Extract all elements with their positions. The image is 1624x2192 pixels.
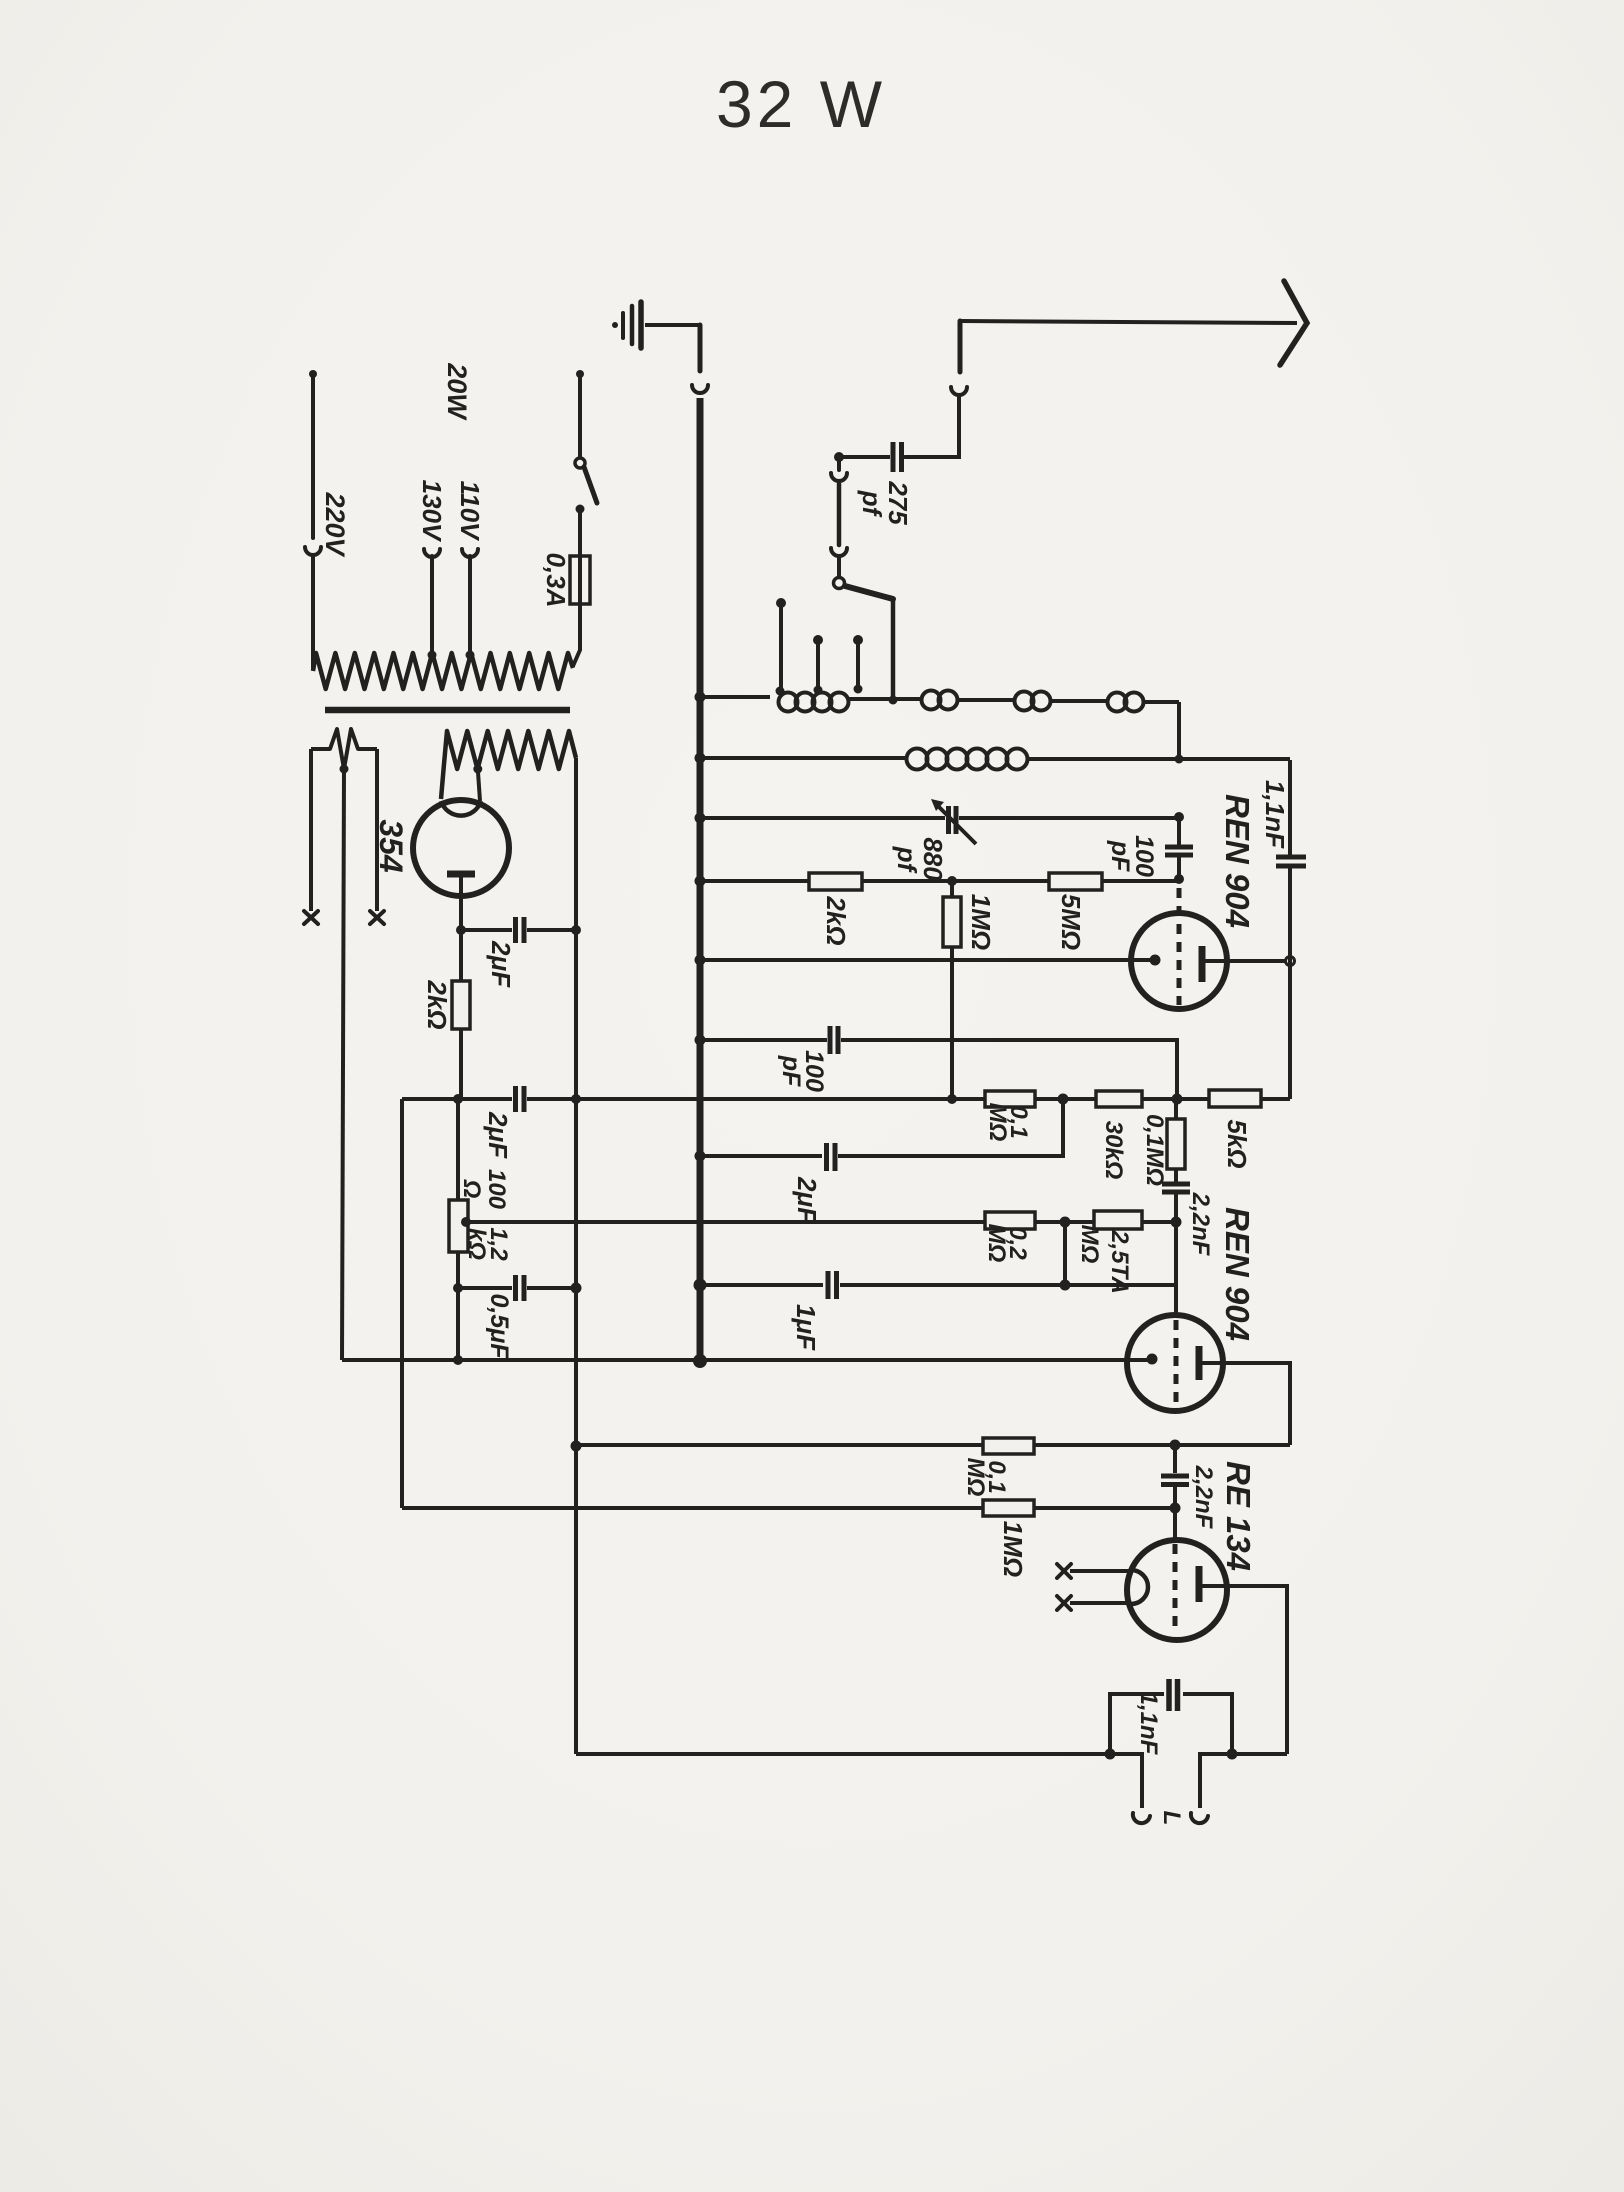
- wire row to 2uF: [461, 928, 512, 932]
- node coil junction: [1175, 755, 1184, 764]
- capacitor 1uF: [828, 1271, 837, 1299]
- tuned coil L2: [700, 749, 1290, 770]
- node grid RE134: [1170, 1503, 1181, 1514]
- svg-text:1,1nF: 1,1nF: [1135, 1692, 1162, 1756]
- node bus h: [694, 1279, 707, 1292]
- HT secondary winding: [441, 731, 576, 799]
- node 1M bottom: [947, 1094, 957, 1104]
- resistor 0,1M anode II: [983, 1438, 1034, 1454]
- tap stub 2: [813, 635, 823, 645]
- terminal speaker b: [1191, 1813, 1208, 1823]
- tube REN904 II: [1127, 1315, 1223, 1411]
- capacitor 2uF coupling: [516, 1086, 525, 1112]
- svg-text:1,2kΩ: 1,2kΩ: [463, 1227, 512, 1261]
- svg-text:2μF: 2μF: [483, 1111, 513, 1159]
- wire filament right to x-terminal: [375, 749, 379, 911]
- svg-text:1MΩ: 1MΩ: [966, 894, 996, 950]
- svg-text:0,1MΩ: 0,1MΩ: [1141, 1114, 1168, 1186]
- wire output row left: [576, 1754, 1142, 1808]
- node filament centre tap: [340, 765, 349, 774]
- tube REN904 I: [1131, 888, 1227, 1009]
- wire 2uF det row right: [838, 1099, 1063, 1156]
- tube RE134: [1127, 1508, 1227, 1640]
- node bus g: [695, 1151, 706, 1162]
- wire cathode row REN904 I: [700, 958, 1154, 962]
- svg-text:1MΩ: 1MΩ: [998, 1521, 1028, 1577]
- switch wave selector: [834, 578, 845, 589]
- node output b: [1227, 1749, 1238, 1760]
- tap stub 3: [853, 635, 863, 645]
- svg-text:REN 904: REN 904: [1219, 1207, 1256, 1341]
- capacitor 0,5uF: [516, 1275, 525, 1301]
- potentiometer 100R 1,2k: [456, 1099, 460, 1360]
- antenna feeder: [960, 321, 1297, 323]
- node HT rail d: [571, 1441, 582, 1452]
- wire 100pF row right: [841, 1040, 1177, 1099]
- resistor 1M grid leak RE134: [983, 1500, 1034, 1516]
- node bias a: [1060, 1217, 1071, 1228]
- wire output row right: [1200, 1754, 1287, 1808]
- wire grid row left: [402, 1097, 512, 1101]
- node pot bottom: [453, 1283, 463, 1293]
- wire RE134 filament b: [1070, 1601, 1131, 1605]
- wire 2uF to HT line: [527, 928, 576, 932]
- node bias link bottom: [1060, 1280, 1071, 1291]
- node 1M top: [947, 876, 957, 886]
- wire fuse to transformer: [573, 604, 580, 666]
- svg-text:1,1nF: 1,1nF: [1260, 780, 1290, 849]
- wire anode RE134: [1202, 1586, 1287, 1754]
- wire 275pf to tap node: [839, 455, 890, 459]
- switch S1: [576, 370, 584, 378]
- capacitor 2,2nF grid II: [1162, 1184, 1190, 1192]
- svg-text:0,1MΩ: 0,1MΩ: [984, 1103, 1032, 1142]
- wire 1uF row left: [700, 1283, 823, 1287]
- wire tuning row right: [959, 816, 1179, 820]
- svg-text:100pF: 100pF: [1106, 835, 1158, 877]
- wire 2,2nF to bias node: [1174, 1194, 1178, 1222]
- node coupling II: [1170, 1440, 1181, 1451]
- capacitor 100pF grid: [1165, 847, 1193, 855]
- resistor 5k: [1209, 1090, 1261, 1107]
- svg-text:5kΩ: 5kΩ: [1222, 1119, 1252, 1168]
- wire anode I lead: [1205, 959, 1286, 963]
- wire ground to bus: [645, 323, 700, 327]
- wire centre tap down to bias row: [342, 769, 344, 1360]
- svg-text:32 W: 32 W: [716, 67, 886, 141]
- svg-text:REN 904: REN 904: [1219, 794, 1256, 928]
- node anode I: [1286, 957, 1295, 966]
- wire ground bus (thick): [697, 398, 704, 1361]
- tap 110V junction: [469, 654, 471, 656]
- node bus b: [695, 753, 706, 764]
- capacitor 1,1nF anode I: [1276, 857, 1306, 866]
- svg-text:5MΩ: 5MΩ: [1056, 894, 1086, 950]
- wire 100pF row left: [700, 1038, 827, 1042]
- wire 1uF row right: [840, 1283, 1176, 1287]
- capacitor 2uF detector: [827, 1143, 836, 1171]
- node HT rail b: [571, 1094, 581, 1104]
- wire bias link: [1063, 1222, 1067, 1285]
- wire filament left to x-terminal: [309, 749, 313, 911]
- wire RE134 grid row: [402, 1506, 1175, 1510]
- capacitor 100pF feedback: [830, 1026, 838, 1054]
- wire anode I vertical: [1288, 760, 1292, 1099]
- wire grid leak row: [700, 879, 1179, 881]
- rectifier tube 354: [413, 800, 509, 896]
- node bus end: [693, 1354, 707, 1368]
- svg-text:100pF: 100pF: [777, 1050, 828, 1092]
- wire coil end down: [1177, 702, 1181, 760]
- svg-text:2kΩ: 2kΩ: [821, 895, 851, 945]
- svg-text:0,1MΩ: 0,1MΩ: [962, 1458, 1010, 1497]
- node grid cap top: [1174, 812, 1184, 822]
- resistor 2,5TA: [1094, 1211, 1142, 1229]
- fuse 0,3A: [578, 556, 582, 604]
- node bias row end: [453, 1355, 463, 1365]
- resistor 2k (smoothing): [459, 930, 463, 1099]
- wire 354 cathode down: [459, 877, 463, 930]
- tap stub 1: [776, 598, 786, 608]
- node bus a: [695, 692, 706, 703]
- transformer core: [325, 707, 570, 714]
- node HT centre tap: [473, 765, 482, 774]
- terminal 130V: [424, 549, 440, 655]
- wire tuning row left: [700, 816, 945, 820]
- svg-text:0,3A: 0,3A: [541, 553, 571, 608]
- terminal 220V: [309, 370, 317, 378]
- svg-text:2,2nF: 2,2nF: [1187, 1192, 1214, 1257]
- svg-text:2μF: 2μF: [792, 1176, 822, 1224]
- wire bus upper stub with plug break: [692, 325, 708, 393]
- resistor 1M vertical: [950, 881, 954, 1099]
- node 30k-5k junction: [1172, 1094, 1183, 1105]
- node bus d: [695, 876, 706, 887]
- wire grid row right: [527, 1097, 1290, 1101]
- svg-text:1μF: 1μF: [791, 1304, 821, 1351]
- wire HT+ rail: [574, 758, 578, 1754]
- svg-text:0,5μF: 0,5μF: [485, 1293, 513, 1359]
- filament winding (354 heater): [311, 729, 377, 769]
- capacitor 275pf antenna: [893, 442, 902, 472]
- wire 2uF det row left: [700, 1154, 822, 1158]
- wire anode II row: [577, 1443, 1290, 1447]
- node bias b: [1171, 1217, 1182, 1228]
- node pot wiper: [461, 1217, 471, 1227]
- capacitor 2uF (reservoir): [516, 917, 525, 943]
- node pot top: [453, 1094, 463, 1104]
- svg-text:0,2MΩ: 0,2MΩ: [983, 1224, 1031, 1263]
- transformer primary winding: [313, 653, 573, 689]
- terminal 110V: [462, 549, 478, 655]
- wire HT centre tap to tube: [478, 769, 480, 801]
- svg-text:2,2nF: 2,2nF: [1190, 1465, 1217, 1530]
- capacitor 1,1nF output: [1110, 1694, 1232, 1754]
- wire 220V lead: [305, 374, 321, 668]
- wire left return vertical: [400, 1099, 404, 1508]
- wire grid II lead: [1174, 1222, 1178, 1316]
- resistor 30k: [1096, 1091, 1142, 1107]
- node bus e: [695, 955, 706, 966]
- node grid I: [1174, 874, 1184, 884]
- node bus f: [695, 1035, 706, 1046]
- svg-text:L: L: [1158, 1811, 1185, 1826]
- resistor 2k grid: [809, 873, 862, 890]
- wire 0,5uF to HT rail: [527, 1286, 576, 1290]
- antenna arrow: [1280, 281, 1307, 365]
- capacitor 880pf variable: [949, 806, 957, 834]
- svg-text:30kΩ: 30kΩ: [1100, 1121, 1127, 1180]
- wire to 0,5uF: [458, 1286, 512, 1290]
- svg-text:130V: 130V: [417, 480, 447, 543]
- node bus c: [695, 813, 706, 824]
- svg-text:220V: 220V: [320, 491, 350, 557]
- node HT rail c: [571, 1283, 582, 1294]
- svg-text:110V: 110V: [455, 481, 485, 542]
- svg-text:RE 134: RE 134: [1220, 1461, 1257, 1571]
- svg-text:20W: 20W: [442, 362, 472, 421]
- wire anode II lead: [1202, 1363, 1290, 1445]
- svg-text:2μF: 2μF: [486, 940, 516, 988]
- antenna coil L1: [700, 691, 1179, 712]
- wire RE134 filament a: [1070, 1569, 1131, 1573]
- resistor 0,1M vertical: [1174, 1099, 1178, 1182]
- resistor 5M: [1049, 873, 1102, 890]
- wire grid cap leads: [1177, 817, 1181, 879]
- node HT rail a: [571, 925, 581, 935]
- wire wave-switch plug chain: [831, 457, 847, 576]
- ground: [612, 302, 641, 348]
- capacitor 2,2nF grid RE134: [1173, 1445, 1177, 1508]
- node 354 output: [456, 925, 466, 935]
- node antenna tap: [834, 452, 844, 462]
- svg-text:2kΩ: 2kΩ: [422, 979, 452, 1029]
- wire bias row: [466, 1220, 1176, 1224]
- wire antenna drop with plug: [905, 321, 967, 457]
- terminal speaker a: [1133, 1813, 1150, 1823]
- node output a: [1105, 1749, 1116, 1760]
- node detector junction: [1058, 1094, 1069, 1105]
- tap 130V junction: [431, 654, 433, 656]
- resistor 0,2M: [985, 1212, 1035, 1229]
- svg-text:354: 354: [373, 819, 409, 873]
- resistor 0,1M plate: [985, 1091, 1035, 1107]
- wire cathode return row: [342, 1358, 1152, 1362]
